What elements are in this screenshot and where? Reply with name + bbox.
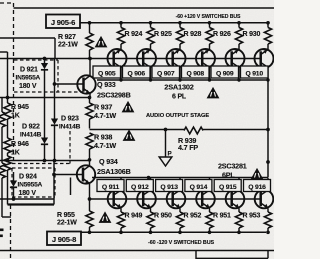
resistor R950 bottom ballast xyxy=(147,212,154,234)
junction Q933 emitter xyxy=(88,96,92,100)
dashed partition D923 xyxy=(69,131,71,164)
label AUDIO OUTPUT STAGE xyxy=(146,113,209,119)
junction D921 top xyxy=(43,57,47,61)
warning triangle A1 xyxy=(96,37,107,47)
wire R938 to Q934 xyxy=(89,149,91,166)
wire net y199 xyxy=(0,198,54,200)
wire D921-D922 link xyxy=(44,70,46,138)
wire +120V bus xyxy=(80,22,268,24)
resistor R926 emitter ballast xyxy=(206,21,213,46)
wire net y97.5 xyxy=(0,97,90,99)
wire x54.5 upper xyxy=(54,38,57,119)
junction rail y129.5 xyxy=(266,128,270,132)
junction left rail y160.5 xyxy=(6,159,10,163)
label Q933 xyxy=(97,80,131,100)
label Q934 xyxy=(97,157,131,176)
label box Q 906 xyxy=(123,66,151,78)
label box Q 915 xyxy=(214,180,241,192)
transistor Q933 xyxy=(77,75,95,93)
wire net y160.5 xyxy=(0,160,90,162)
dashed module boundary left xyxy=(13,3,15,162)
wire Q933 emitter xyxy=(89,94,92,104)
label R 924 xyxy=(125,31,143,38)
warning triangle A5 xyxy=(252,169,263,179)
junction left rail y97.5 xyxy=(6,96,10,100)
transistor Q 915 xyxy=(226,178,245,212)
junction D922 y160.5 xyxy=(43,158,92,162)
transistor Q 907 xyxy=(167,46,186,80)
junction bus-bottom x148 xyxy=(147,176,150,179)
resistor R924 emitter ballast xyxy=(117,21,124,46)
label 2SC3281 xyxy=(218,162,247,180)
wire D921 anode xyxy=(44,59,46,64)
dashed net y163.5 xyxy=(12,163,70,165)
base bus wire bottom xyxy=(90,198,262,200)
transistor Q 905 xyxy=(108,46,127,80)
label box Q 909 xyxy=(211,66,239,78)
label R 926 xyxy=(213,31,231,38)
diode D924 xyxy=(10,181,17,188)
transistor Q 911 xyxy=(108,178,127,212)
wire collector bus bottom xyxy=(92,177,268,179)
connector J905-6 box xyxy=(46,15,80,29)
wire x54 lower xyxy=(53,161,55,205)
resistor R930 emitter ballast xyxy=(235,21,242,46)
bottom rail line xyxy=(0,250,274,252)
label R927 xyxy=(58,34,78,49)
bus label top xyxy=(176,14,241,20)
resistor R955 xyxy=(86,211,93,234)
resistor R949 bottom ballast xyxy=(117,212,124,234)
dashed module boundary top xyxy=(0,2,14,4)
wire collector bus top xyxy=(97,79,268,81)
junction Q 906 collector xyxy=(149,78,152,81)
label R946 xyxy=(11,141,29,157)
wire Q933 base xyxy=(55,83,84,85)
diode D921 xyxy=(41,63,48,70)
resistor R925 emitter ballast xyxy=(147,21,154,46)
label R945 xyxy=(11,104,29,120)
label R 949 xyxy=(125,213,143,220)
label R 951 xyxy=(213,213,231,220)
junction rail y162 xyxy=(266,160,270,164)
wire x54.5 lower xyxy=(54,126,56,161)
warning triangle A3 xyxy=(123,102,134,112)
resistor R bottom ballast xyxy=(264,212,271,234)
wire to P xyxy=(165,130,167,157)
junction Q934 base node xyxy=(52,173,56,177)
label box Q 913 xyxy=(156,180,183,192)
label R955 xyxy=(57,212,77,227)
resistor far-left partial chain xyxy=(0,98,11,218)
wire net y204.5 heavy xyxy=(8,203,55,205)
label 2SA1302 xyxy=(164,83,194,101)
wire net y52 left rail top xyxy=(0,52,8,103)
wire net y38 xyxy=(0,37,55,39)
label box Q 908 xyxy=(182,66,210,78)
diode D922 xyxy=(41,138,48,145)
base bus wire xyxy=(0,58,262,60)
label box Q 907 xyxy=(152,66,180,78)
resistor R937 xyxy=(86,103,93,129)
top rail line xyxy=(14,7,275,9)
junction D924 y199 xyxy=(12,197,16,201)
junction Q 909 collector xyxy=(237,78,240,81)
label R 952 xyxy=(184,213,202,220)
label R 925 xyxy=(154,31,172,38)
warning triangle A4 xyxy=(124,131,135,141)
transistor Q 910 xyxy=(255,46,274,80)
wire stub x70 xyxy=(70,178,72,196)
transistor Q 912 xyxy=(137,178,156,212)
label R 928 xyxy=(184,31,202,38)
transistor Q 906 xyxy=(137,46,156,80)
wire left rail lower xyxy=(4,153,11,205)
label box Q 911 xyxy=(97,180,124,192)
wire D922 cathode xyxy=(44,145,46,161)
label box Q 914 xyxy=(185,180,212,192)
junction P-branch xyxy=(164,128,168,132)
transistor Q 909 xyxy=(226,46,245,80)
label D921 xyxy=(16,67,41,91)
wire Q933 collector feed xyxy=(89,59,91,76)
bus label bottom xyxy=(148,240,215,246)
transistor Q934 xyxy=(77,165,95,183)
label box Q 910 xyxy=(241,66,269,78)
wire Q934 emitter xyxy=(89,184,91,212)
transistor Q 916 xyxy=(255,178,274,212)
junction base Q933 xyxy=(53,82,57,86)
dashed box D924 xyxy=(12,168,55,197)
label D923 xyxy=(59,116,81,131)
junction Q 905 collector xyxy=(119,78,122,81)
resistor R946 xyxy=(4,138,11,153)
label R 930 xyxy=(243,31,261,38)
dashed module boundary lower-left xyxy=(10,205,12,259)
wire bottom right link xyxy=(196,251,268,259)
label R 953 xyxy=(243,213,261,220)
label D924 xyxy=(18,174,43,198)
resistor R928 emitter ballast xyxy=(176,21,183,46)
off-page arrow P xyxy=(159,151,172,167)
label R937 xyxy=(94,103,116,121)
connector J905-8 box xyxy=(47,232,81,246)
wire D924 cathode xyxy=(13,188,15,200)
label box Q 912 xyxy=(126,180,153,192)
junction R955 top xyxy=(88,197,92,201)
dashed box D921 xyxy=(14,60,86,92)
junction Q 910 collector xyxy=(266,78,269,81)
resistor R emitter ballast xyxy=(264,21,271,46)
resistor R951 bottom ballast xyxy=(206,212,213,234)
transistor Q 914 xyxy=(196,178,215,212)
label R939 xyxy=(178,136,198,152)
diode D923 xyxy=(51,119,58,126)
wire output mid right xyxy=(203,129,268,131)
label R 950 xyxy=(154,213,172,220)
resistor R927 xyxy=(86,21,93,59)
junction Q 908 collector xyxy=(208,78,211,81)
wire D924 anode xyxy=(13,172,15,181)
resistor R945 xyxy=(4,103,11,119)
wire output rail right xyxy=(267,80,269,178)
warning triangle A6 xyxy=(100,213,111,223)
wire Q934 base xyxy=(54,174,83,176)
label box Q 916 xyxy=(244,180,271,192)
label D922 xyxy=(20,124,42,139)
left edge clipped label xyxy=(0,229,4,238)
resistor R938 xyxy=(86,133,93,149)
transistor Q 908 xyxy=(196,46,215,80)
junction Q 907 collector xyxy=(178,78,181,81)
resistor R953 bottom ballast xyxy=(235,212,242,234)
warning triangle A2 xyxy=(208,88,219,98)
wire output mid xyxy=(90,129,185,131)
resistor R952 bottom ballast xyxy=(176,212,183,234)
wire bottom node xyxy=(80,231,266,233)
wire left rail mid xyxy=(7,119,9,138)
junction base-bus drop xyxy=(88,57,92,61)
label box Q 905 xyxy=(93,66,121,78)
wire stub below bus xyxy=(195,251,197,259)
label R938 xyxy=(94,133,116,151)
resistor R939 xyxy=(184,127,203,134)
transistor Q 913 xyxy=(167,178,186,212)
